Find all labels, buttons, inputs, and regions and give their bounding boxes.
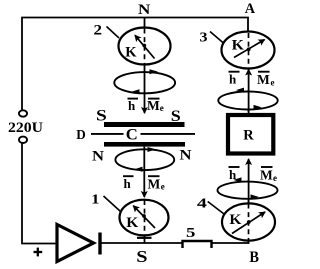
- svg-text:4: 4: [197, 196, 207, 211]
- svg-text:1: 1: [91, 192, 99, 207]
- svg-text:M: M: [147, 98, 160, 113]
- svg-text:2: 2: [94, 22, 103, 38]
- svg-text:K: K: [229, 212, 241, 228]
- svg-text:K: K: [126, 215, 138, 231]
- svg-text:e: e: [271, 77, 275, 87]
- svg-text:M: M: [148, 176, 161, 191]
- svg-text:N: N: [180, 147, 193, 163]
- svg-text:e: e: [160, 103, 164, 113]
- svg-text:S: S: [136, 247, 147, 266]
- svg-text:C: C: [126, 127, 138, 144]
- svg-text:5: 5: [186, 226, 195, 241]
- svg-text:S: S: [96, 107, 107, 124]
- svg-text:N: N: [92, 148, 105, 164]
- svg-text:220U: 220U: [8, 120, 43, 136]
- svg-text:e: e: [273, 173, 277, 183]
- svg-text:h: h: [128, 98, 136, 113]
- svg-text:K: K: [125, 44, 137, 60]
- svg-text:M: M: [260, 168, 273, 183]
- svg-text:K: K: [232, 38, 245, 54]
- svg-text:A: A: [245, 1, 256, 17]
- svg-text:M: M: [257, 72, 270, 87]
- svg-text:3: 3: [200, 30, 208, 45]
- svg-text:h: h: [229, 72, 237, 87]
- svg-text:D: D: [76, 128, 86, 143]
- svg-text:R: R: [243, 127, 254, 143]
- svg-text:h: h: [124, 176, 132, 191]
- svg-text:N: N: [138, 2, 151, 18]
- svg-text:B: B: [249, 249, 259, 266]
- svg-text:e: e: [161, 182, 165, 192]
